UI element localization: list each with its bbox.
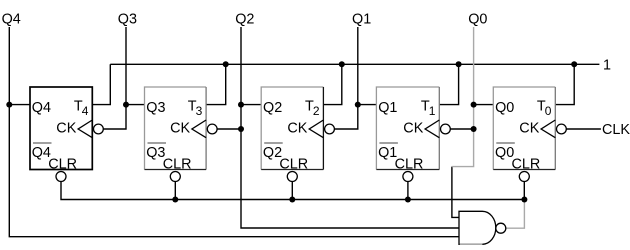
svg-text:CK: CK xyxy=(403,121,423,137)
svg-text:3: 3 xyxy=(196,104,203,118)
svg-text:Q2: Q2 xyxy=(263,100,282,116)
svg-text:4: 4 xyxy=(82,104,89,118)
svg-text:CLR: CLR xyxy=(395,156,424,172)
svg-text:2: 2 xyxy=(313,104,320,118)
svg-text:CLR: CLR xyxy=(279,156,308,172)
svg-text:0: 0 xyxy=(545,104,552,118)
svg-text:Q1: Q1 xyxy=(352,11,371,27)
svg-text:CLK: CLK xyxy=(602,122,630,138)
svg-text:1: 1 xyxy=(603,57,611,73)
svg-text:Q2: Q2 xyxy=(235,11,254,27)
svg-text:Q3: Q3 xyxy=(146,100,165,116)
svg-text:CLR: CLR xyxy=(512,156,541,172)
svg-text:Q3: Q3 xyxy=(118,11,137,27)
svg-text:Q4: Q4 xyxy=(32,100,51,116)
svg-text:1: 1 xyxy=(429,104,436,118)
svg-text:Q4: Q4 xyxy=(2,11,21,27)
svg-text:CLR: CLR xyxy=(163,156,192,172)
svg-text:Q0: Q0 xyxy=(495,100,514,116)
svg-text:CK: CK xyxy=(519,121,539,137)
svg-text:CK: CK xyxy=(287,121,307,137)
svg-text:Q0: Q0 xyxy=(468,11,487,27)
svg-text:CK: CK xyxy=(56,121,76,137)
svg-text:CLR: CLR xyxy=(48,156,77,172)
svg-text:Q1: Q1 xyxy=(378,100,397,116)
svg-text:CK: CK xyxy=(170,121,190,137)
